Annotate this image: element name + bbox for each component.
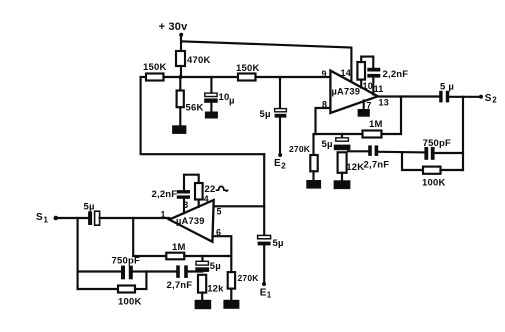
svg-text:12K: 12K: [346, 162, 364, 173]
resistor R 12k (bottom): [198, 275, 224, 295]
svg-text:E: E: [274, 158, 281, 169]
pin 8 label: [322, 100, 327, 110]
svg-text:56K: 56K: [186, 103, 204, 114]
pin 7 label: [366, 101, 371, 111]
svg-text:1M: 1M: [172, 242, 186, 253]
ground below 270K (top): [306, 171, 321, 188]
svg-text:150K: 150K: [236, 63, 260, 74]
resistor R 150K (first): [143, 62, 167, 81]
symbol sine ohm mark: [217, 186, 228, 191]
node +30V terminal dot: [179, 33, 183, 37]
ground below 12K (top): [334, 173, 351, 189]
pin 1 label: [161, 210, 166, 220]
svg-text:4: 4: [204, 194, 209, 204]
wire main horizontal line left segment: [141, 76, 146, 78]
pin 3 label: [183, 200, 188, 210]
svg-text:12k: 12k: [207, 284, 224, 295]
pin 5 label: [217, 207, 222, 217]
pin 4 label: [204, 194, 209, 204]
svg-text:1: 1: [44, 216, 49, 225]
svg-text:11: 11: [374, 84, 384, 94]
resistor R 100K (top): [402, 152, 463, 188]
svg-text:150K: 150K: [143, 62, 167, 73]
capacitor C 5u at E2: [260, 77, 287, 120]
wire left rail down: [141, 77, 265, 154]
svg-text:+ 30v: + 30v: [159, 21, 189, 33]
wire cap to S2: [449, 96, 480, 98]
wire main line 150K to 150K: [164, 76, 239, 78]
ground pin 7: [358, 101, 370, 117]
svg-text:S: S: [36, 212, 43, 223]
ground below 12k (bottom): [195, 293, 212, 310]
pin 9 label: [322, 69, 327, 79]
capacitor C 750pF (top): [423, 138, 463, 160]
wire junction A down: [77, 218, 79, 289]
svg-text:9: 9: [322, 69, 327, 79]
node E1: [260, 245, 272, 299]
svg-text:1: 1: [161, 210, 166, 220]
capacitor C 2.7nF (top): [348, 145, 424, 170]
svg-text:2,7nF: 2,7nF: [167, 280, 193, 291]
resistor R 56K: [177, 77, 204, 114]
wire +30V to 470K: [180, 35, 182, 51]
pin 11 label: [374, 84, 384, 94]
ground below 270K (bottom): [223, 289, 239, 309]
svg-text:5µ: 5µ: [322, 139, 333, 150]
resistor R 1M (bottom): [133, 242, 231, 259]
svg-text:470K: 470K: [187, 55, 211, 66]
svg-text:13: 13: [379, 98, 389, 108]
svg-text:2,7nF: 2,7nF: [364, 159, 390, 170]
capacitor C 5u output: [439, 82, 454, 103]
svg-text:µA739: µA739: [332, 87, 361, 97]
svg-text:E: E: [260, 287, 267, 298]
svg-text:µA739: µA739: [176, 216, 205, 226]
wire output pin 13: [378, 95, 439, 97]
wire pin 5 output: [214, 205, 265, 207]
wire junction B down: [132, 218, 134, 256]
svg-text:2,2nF: 2,2nF: [152, 189, 178, 200]
svg-text:5µ: 5µ: [84, 202, 95, 213]
svg-text:22: 22: [205, 184, 216, 195]
resistor R 270K (top): [289, 134, 318, 171]
wire 2.2nF top loop: [184, 175, 199, 190]
resistor R 150K (second): [236, 63, 260, 81]
svg-text:2: 2: [492, 96, 497, 105]
pin 6 label: [216, 228, 221, 238]
capacitor C 2.7nF (bottom): [146, 265, 202, 291]
svg-text:100K: 100K: [118, 297, 142, 308]
pin 14 label: [341, 68, 351, 78]
resistor R 270K (bottom): [228, 272, 260, 289]
wire E column vertical: [263, 154, 265, 235]
svg-text:5µ: 5µ: [210, 261, 221, 272]
pin 10 label: [363, 81, 373, 91]
svg-text:µ: µ: [229, 96, 235, 107]
capacitor C 5u (bottom feedback): [195, 256, 221, 272]
resistor R 22 (bottom amp pin 4): [195, 183, 215, 207]
capacitor C 5u input: [84, 202, 100, 226]
pin 13 label: [379, 98, 389, 108]
svg-text:750pF: 750pF: [112, 256, 140, 267]
capacitor C 2.2nF (bottom amp pin 3): [152, 189, 191, 213]
svg-text:5µ: 5µ: [273, 238, 284, 249]
ground below 56K: [172, 107, 186, 134]
svg-text:5 µ: 5 µ: [440, 82, 454, 93]
resistor R 1M (top): [316, 119, 402, 138]
node E2: [274, 118, 286, 171]
svg-text:100K: 100K: [422, 177, 446, 188]
node junction bias: [179, 75, 183, 79]
capacitor C 10u: [204, 77, 234, 107]
svg-text:5: 5: [217, 207, 222, 217]
wire S1 to input cap: [56, 217, 89, 219]
svg-text:270K: 270K: [238, 273, 260, 283]
svg-text:14: 14: [341, 68, 351, 78]
svg-text:10: 10: [363, 81, 373, 91]
wire pin 6: [213, 236, 231, 272]
svg-text:1: 1: [267, 291, 272, 300]
capacitor C 750pF (bottom): [78, 256, 147, 280]
capacitor C 5u at E1: [258, 235, 284, 249]
resistor compensation (top amp pin 10): [357, 57, 373, 88]
svg-text:750pF: 750pF: [423, 138, 451, 149]
op-amp U1 uA739 (bottom): [169, 200, 213, 242]
op-amp U2 uA739 (top): [330, 71, 377, 113]
resistor R 12K (top): [338, 152, 365, 173]
wire +30V diagonal to pin 14: [181, 41, 351, 82]
svg-text:5µ: 5µ: [260, 109, 271, 120]
svg-text:1M: 1M: [369, 119, 383, 130]
wire cap to pin 1: [100, 217, 170, 219]
node S2: [479, 93, 497, 105]
wire 470K to main node: [180, 66, 182, 77]
resistor R 470K: [176, 51, 211, 66]
capacitor C 2.2nF (top amp pin 11): [367, 68, 408, 95]
wire 150K to pin 9: [256, 76, 331, 78]
svg-text:2,2nF: 2,2nF: [383, 69, 409, 80]
node S1: [36, 212, 58, 225]
wire S2 node down: [462, 97, 464, 170]
svg-text:10: 10: [219, 92, 230, 103]
node +30V supply label: [159, 21, 189, 33]
ground below 10u: [205, 103, 218, 119]
wire pin 8 to feedback node: [316, 108, 331, 134]
resistor R 100K (bottom): [78, 272, 147, 308]
svg-text:S: S: [485, 93, 492, 104]
capacitor C 5u (top feedback): [322, 134, 351, 150]
svg-text:270K: 270K: [289, 144, 311, 154]
wire 1M to output: [400, 97, 402, 135]
svg-text:2: 2: [281, 162, 286, 171]
